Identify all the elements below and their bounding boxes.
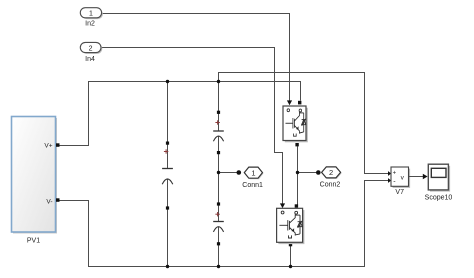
C4 bottom port square [217, 242, 220, 245]
input port In2 [80, 8, 103, 19]
svg-text:Conn1: Conn1 [242, 182, 263, 189]
svg-text:Conn2: Conn2 [320, 182, 341, 189]
DC- rail from PV1 V- to V7 minus input [60, 181, 389, 267]
C2 polarity plus [164, 149, 168, 153]
C3 bottom port square [217, 151, 220, 154]
wire Conn2 tap [298, 172, 317, 174]
wire In2 to IGBT1 gate [102, 14, 290, 101]
IGBT2 bottom port square [289, 243, 292, 246]
wire IGBT1 emitter to IGBT2 collector [297, 146, 299, 204]
PV1 V+ port [56, 143, 60, 147]
C4 top plate [213, 221, 224, 223]
svg-text:1: 1 [251, 168, 255, 177]
junction dot DC- rail at IGBT2 [289, 265, 292, 268]
C3 top port square [217, 111, 220, 114]
arrowhead Scope10 input [423, 174, 428, 180]
svg-text:+: + [393, 170, 397, 176]
svg-text:PV1: PV1 [27, 238, 40, 245]
junction dot rail A at C3 [217, 80, 220, 83]
IGBT1 top port square [298, 101, 301, 105]
capacitor branch C2 wire lower [167, 179, 169, 267]
C4 polarity plus [215, 212, 219, 216]
C4 curved plate [213, 227, 223, 232]
connection dot Conn1 [237, 170, 242, 175]
C3 curved plate [213, 136, 223, 141]
arrowhead IGBT1 gate [287, 100, 292, 105]
svg-text:2: 2 [329, 168, 333, 177]
wire IGBT2 emitter to DC- rail [290, 246, 292, 267]
IGBT2 block [277, 208, 305, 244]
C3 polarity plus [215, 120, 219, 124]
C2 curved plate [162, 179, 173, 184]
junction dot Conn1 tap [217, 171, 220, 174]
junction dot DC- rail at C2 [166, 265, 169, 268]
PV array block PV1 [12, 117, 58, 234]
wire Conn1 tap [219, 172, 238, 174]
IGBT1 block [283, 106, 308, 142]
arrowhead V7 plus input [388, 171, 391, 176]
svg-text:In2: In2 [85, 21, 95, 28]
wire DC link tap to V7 plus input (upper rail) [219, 73, 389, 174]
PV1 V- port [56, 198, 60, 202]
IGBT1 bottom port square [295, 143, 298, 146]
C3 top plate [213, 130, 224, 132]
IGBT2 top port square [295, 204, 298, 207]
wire V7 to Scope10 [409, 176, 424, 178]
svg-text:V-: V- [46, 199, 52, 206]
arrowhead V7 minus input [388, 178, 391, 183]
connection port Conn2 [322, 167, 342, 179]
connection dot Conn2 [316, 170, 321, 175]
svg-text:1: 1 [89, 11, 93, 18]
junction dot rail A at C2 [166, 80, 169, 83]
input port In4 [80, 42, 102, 54]
junction dot DC- rail at C4 [217, 265, 220, 268]
capacitor branch C3 upper wire [218, 82, 220, 132]
svg-text:V+: V+ [44, 143, 52, 150]
wire PV1 V+ to DC+ rail and IGBT1 collector [60, 82, 301, 146]
wire In4 to IGBT2 gate [101, 48, 283, 204]
C2 top port square [166, 142, 169, 145]
svg-text:Scope10: Scope10 [425, 195, 453, 202]
C2 bottom port square [166, 206, 169, 209]
junction dot Conn2 tap [296, 171, 299, 174]
svg-text:In4: In4 [85, 56, 95, 63]
C4 top port square [217, 202, 220, 205]
scope block Scope10 [428, 164, 450, 191]
capacitor branch C2 wire upper [167, 82, 169, 169]
arrowhead IGBT2 gate [280, 203, 285, 208]
svg-text:V7: V7 [395, 189, 404, 196]
svg-text:2: 2 [89, 45, 93, 52]
connection port Conn1 [244, 167, 263, 179]
C2 top plate [162, 168, 173, 170]
capacitor branch C4 upper wire [218, 173, 220, 222]
voltage measurement V7 [391, 167, 410, 188]
